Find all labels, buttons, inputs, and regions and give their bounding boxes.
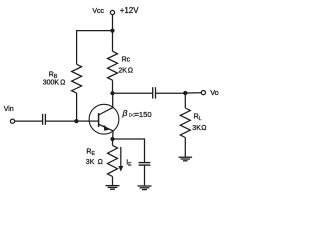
terminal Vo	[201, 91, 205, 95]
wire Vo node to Vo terminal	[185, 92, 201, 94]
resistor RE	[108, 145, 118, 176]
svg-text:2K: 2K	[118, 67, 127, 74]
wire emitter node to bypass capacitor	[113, 139, 145, 162]
junction emitter node	[110, 137, 114, 141]
svg-text:Vo: Vo	[210, 88, 219, 97]
wire top junction to Rc top	[112, 31, 114, 52]
wire output capacitor to Vo node	[156, 92, 185, 94]
resistor RL	[180, 108, 190, 138]
wire bypass capacitor to ground	[144, 165, 146, 185]
current arrow IE	[118, 147, 123, 172]
wire base node to transistor	[76, 120, 89, 122]
capacitor bypass	[139, 162, 151, 164]
wire Vcc terminal to top junction	[112, 15, 114, 31]
resistor Rc	[108, 51, 118, 80]
svg-text:RE: RE	[86, 148, 95, 157]
svg-text:+12V: +12V	[120, 6, 140, 15]
svg-text:Ω: Ω	[128, 67, 133, 74]
ground RL	[179, 157, 193, 161]
junction base node	[74, 119, 78, 123]
wire Rc bottom to collector node	[112, 80, 114, 93]
svg-text:Vin: Vin	[4, 106, 14, 113]
svg-text:3K: 3K	[86, 159, 95, 166]
wire RE bottom to ground	[112, 177, 114, 186]
ground bypass	[138, 186, 152, 190]
svg-text:=150: =150	[135, 110, 152, 119]
wire RL bottom to ground	[184, 138, 186, 158]
svg-text:Rc: Rc	[122, 57, 131, 64]
svg-text:3K: 3K	[192, 125, 201, 132]
resistor RB	[72, 64, 82, 93]
svg-text:Ω: Ω	[98, 159, 103, 166]
junction Vcc/RB/Rc node	[110, 29, 114, 33]
terminal Vcc	[110, 10, 114, 14]
capacitor output coupling	[152, 87, 154, 98]
wire collector node to output capacitor	[113, 92, 153, 94]
wire Vin terminal to input capacitor	[15, 120, 42, 122]
ground RE	[106, 186, 120, 190]
svg-text:300K: 300K	[43, 79, 60, 86]
wire collector lead	[112, 93, 114, 107]
svg-text:β: β	[122, 108, 128, 118]
wire Vo node to RL top	[184, 93, 186, 108]
wire emitter lead	[112, 131, 114, 139]
junction collector node	[110, 91, 114, 95]
wire top junction to RB top	[76, 30, 112, 32]
capacitor input coupling	[42, 114, 44, 125]
svg-text:Ω: Ω	[201, 125, 206, 132]
svg-text:RL: RL	[194, 114, 202, 123]
terminal Vin	[10, 119, 14, 123]
transistor Q1	[89, 104, 119, 134]
wire RB bottom to base node	[76, 93, 78, 121]
svg-text:Vcc: Vcc	[92, 8, 104, 15]
wire input capacitor to base node	[46, 120, 76, 122]
wire emitter node to RE top	[112, 139, 114, 145]
junction Vo node	[183, 91, 187, 95]
svg-text:IE: IE	[126, 160, 132, 169]
svg-text:Ω: Ω	[60, 79, 65, 86]
wire RB top lead	[76, 31, 78, 65]
